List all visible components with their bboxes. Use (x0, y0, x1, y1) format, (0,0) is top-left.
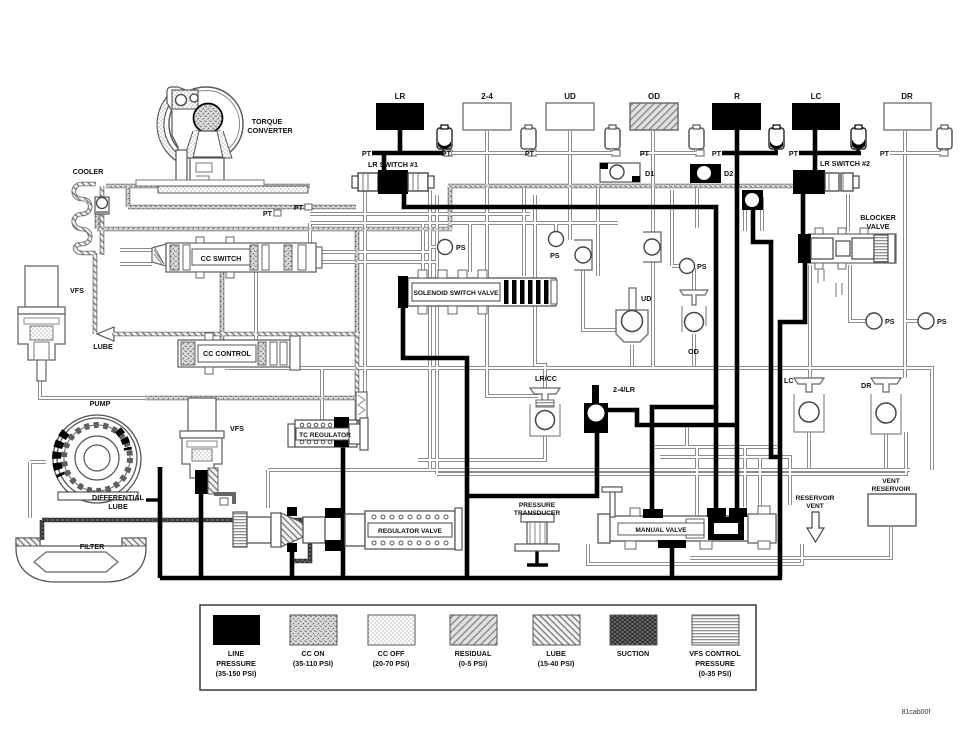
svg-text:CC ON: CC ON (301, 649, 324, 658)
wire line-pressure 24lr bottom branch (465, 430, 597, 496)
legend line pressure swatch (213, 615, 260, 645)
cooler coil (74, 184, 96, 253)
legend residual swatch (450, 615, 497, 645)
svg-text:PT: PT (442, 149, 452, 158)
svg-text:(35-150 PSI): (35-150 PSI) (216, 669, 257, 678)
wire gray UD/OD drains (630, 345, 634, 366)
svg-text:CC OFF: CC OFF (378, 649, 405, 658)
svg-text:OD: OD (648, 92, 660, 101)
node LR box (376, 103, 424, 130)
wire gray TC outlet rails (310, 212, 530, 216)
wire line-pressure LR to switch1 (382, 153, 387, 172)
svg-text:SUCTION: SUCTION (617, 649, 649, 658)
regulator valve U-REG (233, 507, 462, 552)
wire line-pressure switch1 out to manual valve (404, 190, 716, 409)
VFS upper U-VFS1 (18, 266, 65, 381)
svg-text:VENT: VENT (806, 503, 824, 510)
wire CC-ON dotted vertical joiner (448, 186, 453, 229)
node 2-4 box (463, 103, 511, 130)
svg-text:PS: PS (697, 262, 707, 271)
svg-text:CC CONTROL: CC CONTROL (203, 349, 252, 358)
wire CC-ON dotted feed to TC regulator (355, 231, 360, 340)
legend lube swatch (533, 615, 580, 645)
accumulator bracket UD line (574, 240, 592, 270)
wire gray blocker top feeds (743, 197, 747, 231)
LR switch 2 U-LRSW2 (793, 170, 859, 194)
relief valve center (356, 392, 367, 434)
wire line-pressure LR PT rail (372, 151, 448, 156)
svg-text:PT: PT (880, 149, 890, 158)
svg-text:DIFFERENTIAL: DIFFERENTIAL (92, 493, 145, 502)
svg-text:LUBE: LUBE (93, 342, 113, 351)
wire gray OD stem down (651, 153, 655, 232)
VFS lower U-VFS2 (180, 398, 234, 505)
wire gray manual valve ladder (655, 445, 777, 449)
accumulator bracket OD line (643, 232, 661, 262)
wire CC-ON dotted cooler drop (95, 207, 100, 229)
wire CC-ON dotted long rail right of LR switch 1 (448, 184, 838, 189)
manual valve U-MAN (598, 487, 776, 549)
D2 check (690, 164, 721, 183)
wire gray blocker to LC valve (808, 265, 812, 378)
svg-text:REGULATOR VALVE: REGULATOR VALVE (378, 528, 443, 535)
svg-text:CONVERTER: CONVERTER (247, 126, 293, 135)
svg-text:CC SWITCH: CC SWITCH (201, 254, 242, 263)
solenoid switch valve U-SSV (398, 270, 557, 314)
svg-text:PRESSURE: PRESSURE (216, 659, 256, 668)
svg-text:LUBE: LUBE (546, 649, 566, 658)
wire suction filter stub (40, 520, 45, 540)
LR/CC valve U-LRCC (530, 388, 560, 436)
svg-text:UD: UD (564, 92, 576, 101)
svg-text:TRANSDUCER: TRANSDUCER (514, 510, 560, 517)
wire gray CC switch to CC control (254, 272, 258, 340)
cooler check valve (95, 197, 109, 214)
svg-text:PT: PT (362, 149, 372, 158)
wire line-pressure tc-regulator drop (341, 420, 346, 578)
svg-text:LR/CC: LR/CC (535, 374, 557, 383)
svg-text:2-4: 2-4 (481, 92, 493, 101)
capsule accumulators (437, 125, 952, 153)
wire line-pressure diff lube tick (146, 498, 162, 501)
svg-text:LR: LR (395, 92, 406, 101)
svg-text:PRESSURE: PRESSURE (695, 659, 735, 668)
wire gray long y470 (268, 468, 910, 472)
torque converter U-TC (136, 87, 308, 193)
wire line-pressure LC stem (813, 130, 818, 172)
svg-text:(0-5 PSI): (0-5 PSI) (459, 659, 488, 668)
wire CC-OFF dotted long y398 (145, 396, 360, 401)
svg-text:VFS: VFS (70, 286, 84, 295)
wire line-pressure y407 branch to manual valve (652, 407, 716, 513)
PS pressure switch circles (438, 240, 453, 255)
svg-text:LC: LC (811, 92, 822, 101)
wire gray UD stem down (568, 153, 572, 240)
wire line-pressure transducer stub (535, 550, 538, 566)
svg-text:D2: D2 (724, 169, 733, 178)
wire line-pressure LR stem (398, 130, 403, 153)
wire gray DR PS stub (905, 319, 918, 323)
wire gray DR stem down to DR valve (903, 153, 907, 378)
svg-text:PT: PT (640, 149, 650, 158)
svg-text:PT: PT (712, 149, 722, 158)
wire gray UD branch to UD valve (583, 270, 618, 330)
check ball R line (742, 190, 763, 210)
svg-text:UD: UD (641, 294, 651, 303)
legend cc on swatch (290, 615, 337, 645)
svg-text:R: R (734, 92, 740, 101)
2-4/LR valve U-24LR (584, 385, 608, 433)
wire CC-ON dotted rail under torque converter (106, 184, 310, 189)
wire gray solenoid feeds (522, 188, 526, 276)
wire gray VFS upper drain (40, 381, 148, 398)
LR switch 1 U-LRSW1 (352, 170, 434, 194)
wire line-pressure R stem full (735, 130, 740, 513)
wire CC dotted CC-switch drop (220, 272, 225, 340)
svg-text:LR SWITCH #2: LR SWITCH #2 (820, 159, 870, 168)
reservoir vent arrow (807, 512, 824, 542)
UD ball valve U-UD (616, 288, 648, 342)
wire gray pump left (30, 460, 46, 464)
wire line-pressure R capsule stem (774, 148, 777, 153)
svg-text:RESERVOIR: RESERVOIR (796, 495, 835, 502)
node DR box (884, 103, 931, 130)
svg-text:TORQUE: TORQUE (252, 117, 283, 126)
wire gray blocker right to PS (850, 265, 866, 321)
wire gray 2-4 stem down to LR/CC (487, 153, 538, 396)
svg-text:BLOCKER: BLOCKER (860, 213, 896, 222)
wire line-pressure LR capsule stem (442, 148, 445, 153)
svg-text:2-4/LR: 2-4/LR (613, 385, 636, 394)
CC control valve U-CCCT (178, 333, 300, 374)
wire gray center verticals (428, 190, 432, 470)
svg-text:VFS CONTROL: VFS CONTROL (689, 649, 741, 658)
svg-text:VALVE: VALVE (867, 222, 890, 231)
wire lube arrow line (112, 332, 360, 337)
svg-text:(0-35 PSI): (0-35 PSI) (699, 669, 732, 678)
wire line-pressure blocker down (780, 263, 805, 578)
svg-text:81cab00f: 81cab00f (902, 709, 931, 716)
svg-text:RESIDUAL: RESIDUAL (455, 649, 492, 658)
svg-text:(20-70 PSI): (20-70 PSI) (373, 659, 410, 668)
legend vfs control swatch (692, 615, 739, 645)
svg-text:PT: PT (294, 203, 304, 212)
svg-text:PS: PS (456, 243, 466, 252)
LC ball valve U-LC (794, 378, 824, 432)
svg-text:PS: PS (885, 317, 895, 326)
svg-text:LINE: LINE (228, 649, 245, 658)
wire line-pressure regulator bottom port drop (290, 548, 295, 578)
svg-text:FILTER: FILTER (80, 542, 105, 551)
legend cc off swatch (368, 615, 415, 645)
wire line-pressure LC capsule stem (856, 143, 859, 153)
wire lube cooler right leg (100, 186, 105, 255)
wire gray CC switch left stubs (120, 248, 152, 252)
svg-text:(15-40 PSI): (15-40 PSI) (538, 659, 575, 668)
PT tick connectors (444, 150, 948, 156)
wire gray OD to OD valve (651, 262, 655, 368)
wire line-pressure R PT rail (722, 151, 778, 156)
vent reservoir U-VRES (868, 494, 916, 526)
svg-text:D1: D1 (645, 169, 654, 178)
svg-text:OD: OD (688, 347, 699, 356)
svg-text:MANUAL VALVE: MANUAL VALVE (635, 527, 687, 534)
D1 check (600, 163, 640, 182)
pump U-PUMP (53, 415, 141, 503)
svg-text:LC: LC (784, 376, 794, 385)
wire CC dotted y207 (128, 205, 356, 210)
svg-text:LR SWITCH #1: LR SWITCH #1 (368, 160, 418, 169)
lube arrow head (97, 327, 114, 341)
blocker valve U-BLK (798, 228, 896, 297)
svg-text:DR: DR (901, 92, 913, 101)
wire lube from cooler to lube arrow (93, 253, 98, 334)
wire lube TC regulator drop (344, 334, 357, 424)
svg-text:PT: PT (263, 209, 273, 218)
wire gray LRSW2 drop to blocker (846, 194, 850, 231)
wire line-pressure solenoid cap drop to rail (403, 306, 467, 578)
svg-text:COOLER: COOLER (73, 167, 105, 176)
wire line-pressure D2 branch down (753, 209, 780, 457)
wire gray vent reservoir drain (690, 527, 891, 558)
wire line-pressure vfs2 drop (199, 492, 204, 578)
svg-text:PUMP: PUMP (90, 399, 111, 408)
wire line-pressure x716 lower (714, 405, 719, 513)
wire gray CC control drop to regulator (300, 368, 322, 428)
wire line-pressure 24lr out to R line (604, 410, 739, 425)
wire gray y474b (437, 432, 906, 474)
svg-text:PS: PS (937, 317, 947, 326)
wire gray PS stubs (430, 245, 438, 249)
svg-text:PS: PS (550, 251, 560, 260)
svg-text:TC REGULATOR: TC REGULATOR (299, 432, 351, 439)
wire gray long y368 (225, 368, 932, 470)
wire gray manual valve bottom box (588, 544, 802, 564)
CC switch valve U-CCSW (152, 237, 322, 278)
wire gray regulator feed left (266, 470, 270, 508)
node LC box (792, 103, 840, 130)
wire gray CC switch outputs right (318, 250, 430, 254)
OD poppet valve U-OD (680, 290, 708, 332)
wire gray LR/CC drain (418, 436, 545, 460)
svg-text:RESERVOIR: RESERVOIR (872, 486, 911, 493)
wire CC-ON dotted lower rail (97, 227, 452, 232)
wire gray long y474 (266, 474, 270, 508)
filter U-FILTER (16, 538, 146, 582)
wire line-pressure LC switch2 down to blocker (801, 190, 806, 235)
pressure transducer U-PTX (515, 514, 559, 551)
wire gray relief valve feed (363, 190, 367, 392)
svg-text:VFS: VFS (230, 424, 244, 433)
node R box (712, 103, 761, 130)
legend suction swatch (610, 615, 657, 645)
wire line-pressure manual valve bottom out (670, 540, 675, 578)
wire gray 2-4 rails (485, 131, 489, 153)
TC regulator U-TCR (288, 417, 368, 450)
wire gray LC DR drains (807, 432, 811, 468)
legend box (200, 605, 756, 690)
wire suction filter to regulator (42, 520, 310, 561)
svg-text:SOLENOID SWITCH VALVE: SOLENOID SWITCH VALVE (413, 290, 499, 297)
svg-text:LUBE: LUBE (108, 502, 128, 511)
svg-text:(35-110 PSI): (35-110 PSI) (293, 659, 334, 668)
svg-text:PT: PT (525, 149, 535, 158)
node OD box (630, 103, 678, 130)
svg-text:PT: PT (789, 149, 799, 158)
wire line-pressure bottom rail (160, 576, 782, 581)
DR ball valve U-DR (871, 378, 901, 434)
node UD box (546, 103, 594, 130)
svg-text:VENT: VENT (882, 478, 900, 485)
wire line-pressure pump drop (158, 467, 163, 578)
wire gray solenoid top stubs (421, 223, 425, 272)
svg-text:DR: DR (861, 381, 872, 390)
wire line-pressure LC PT rail (799, 151, 861, 156)
svg-text:PRESSURE: PRESSURE (519, 502, 556, 509)
